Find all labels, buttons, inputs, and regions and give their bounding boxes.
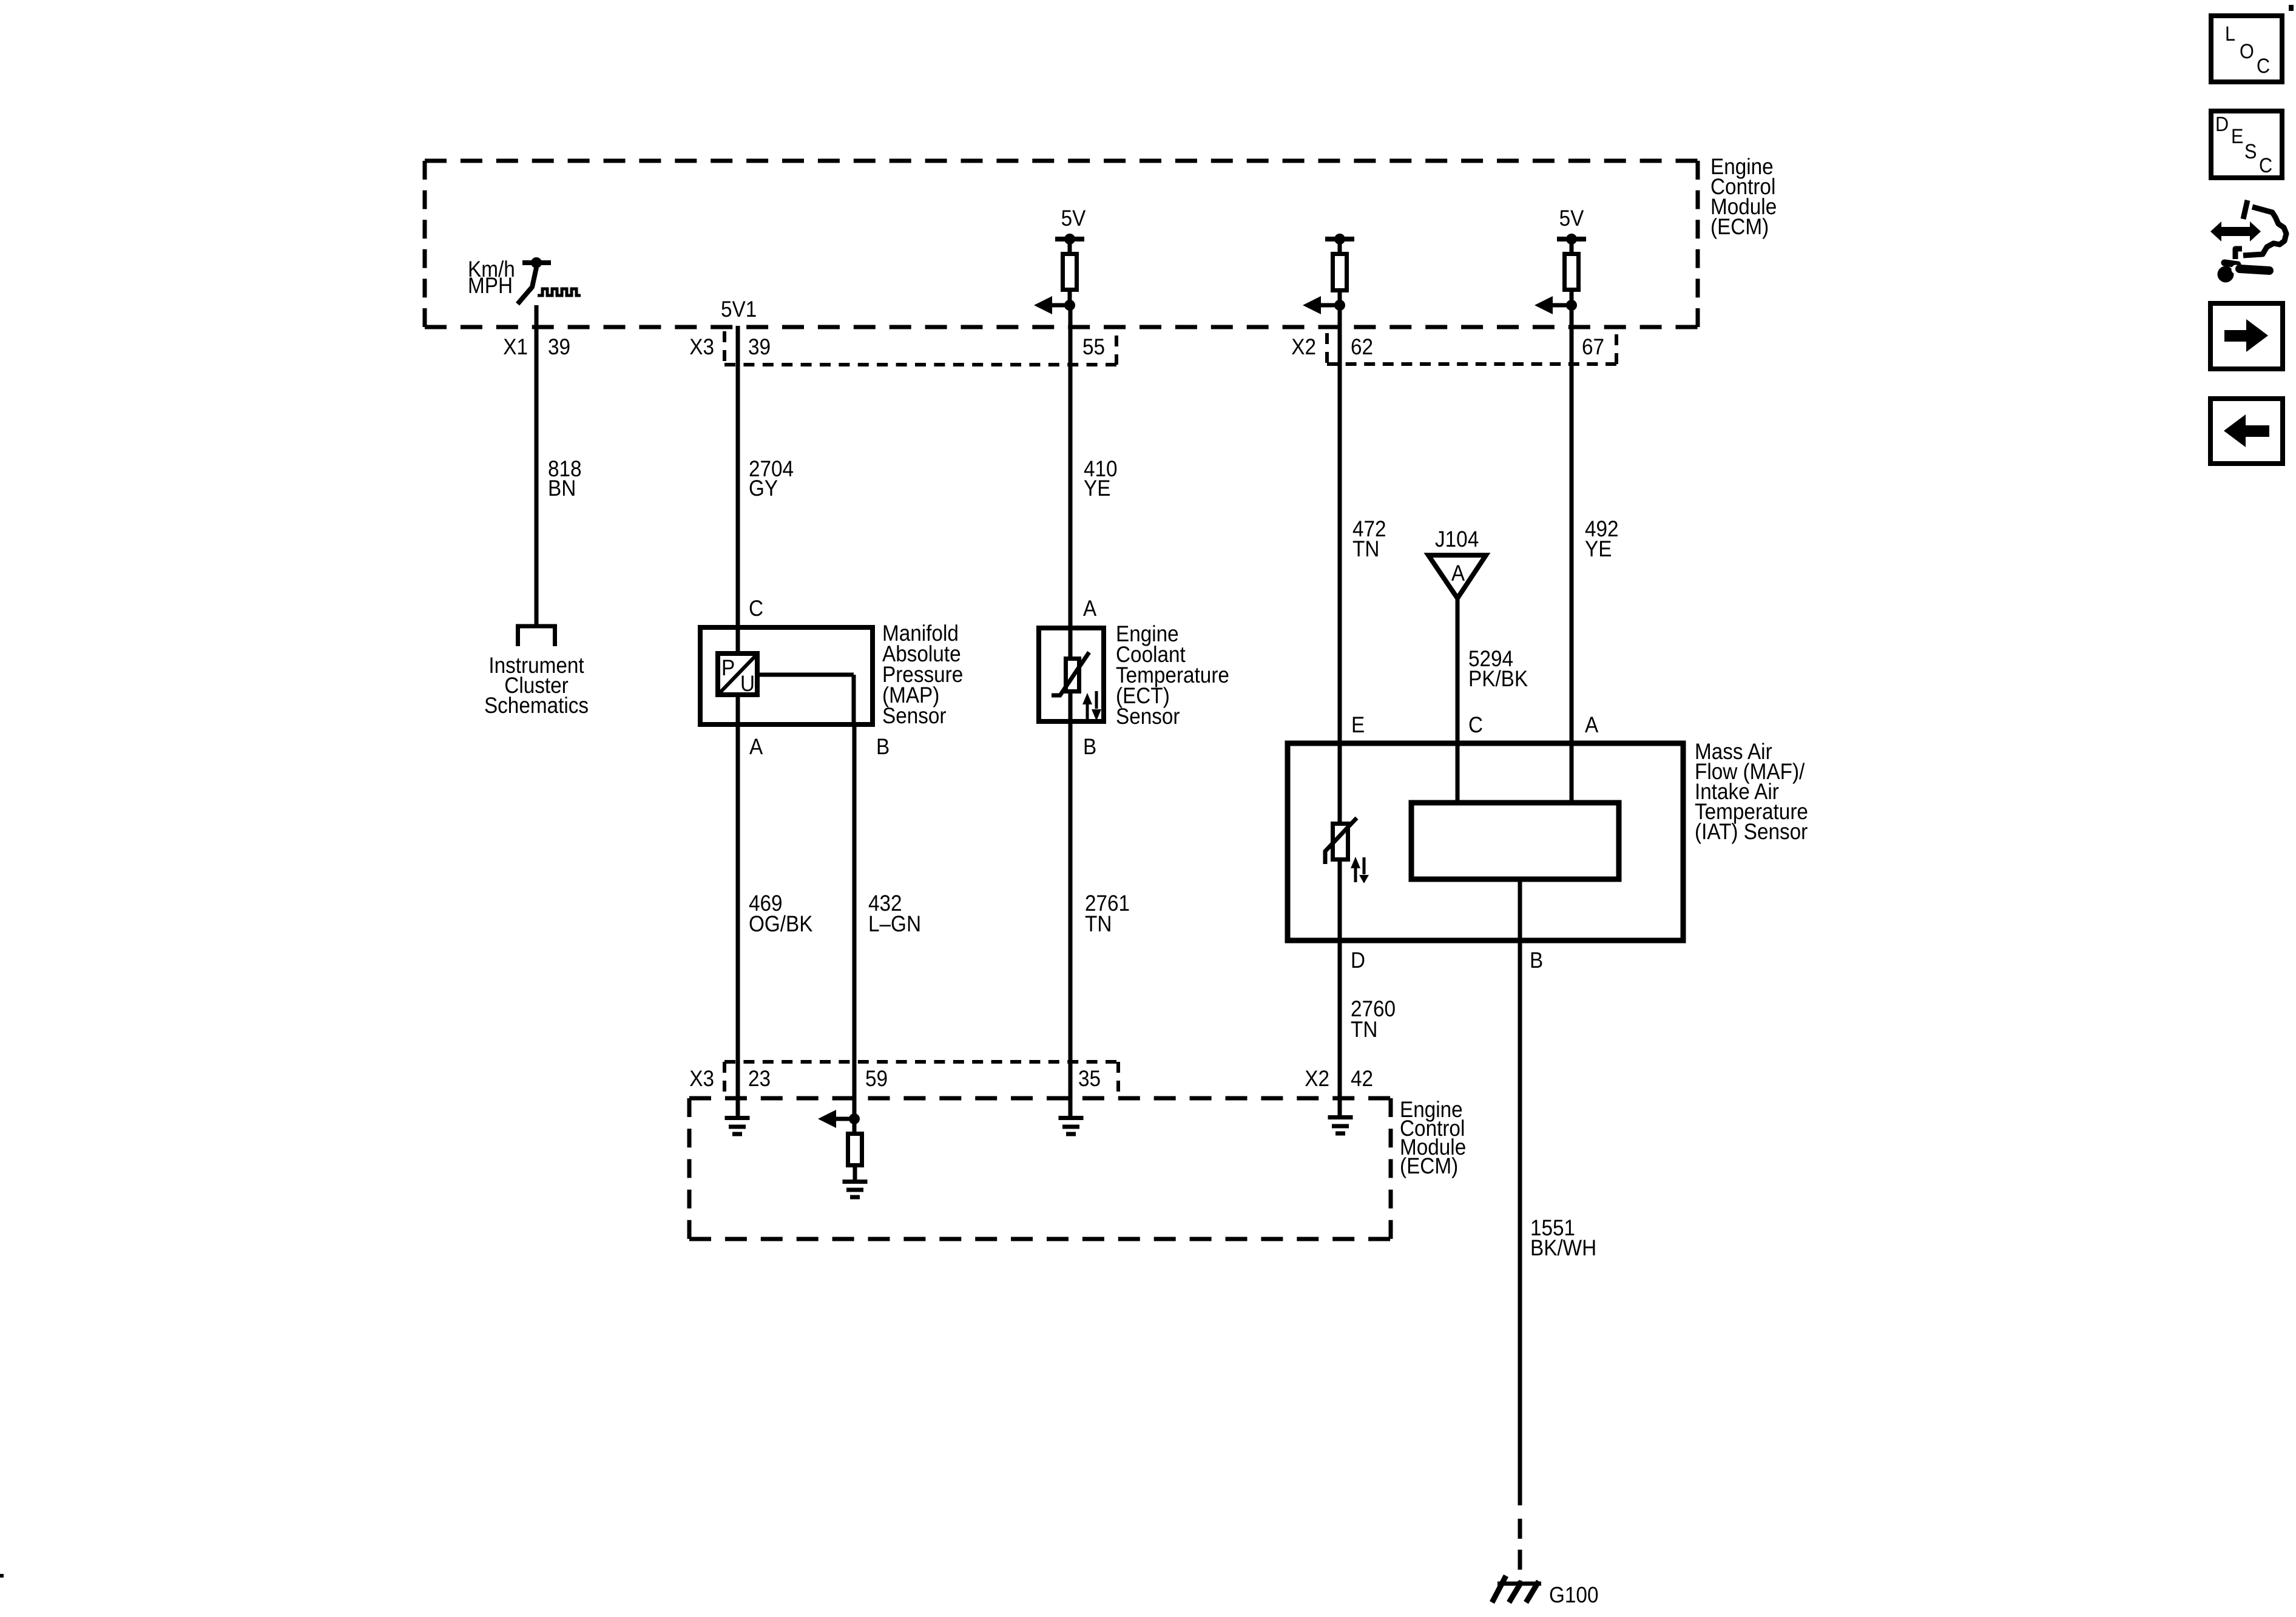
resistor (ECT pull-up in ECM) <box>1068 239 1072 254</box>
svg-text:L: L <box>2225 22 2235 46</box>
svg-text:X2: X2 <box>1291 334 1316 359</box>
svg-text:A: A <box>1083 596 1097 621</box>
ECT temperature arrows <box>1086 703 1089 720</box>
svg-text:O: O <box>2240 40 2254 63</box>
ground (internal ECM) <box>843 1182 868 1198</box>
svg-text:TN: TN <box>1085 911 1112 936</box>
wire 432 L-GN (MAP low reference) <box>853 724 857 1119</box>
svg-text:C: C <box>2257 55 2270 78</box>
svg-text:A: A <box>749 734 763 759</box>
MAF electronics inner box <box>1411 803 1619 879</box>
svg-text:Sensor: Sensor <box>882 703 947 728</box>
resistor (IAT pull-up in ECM) <box>1338 239 1342 254</box>
svg-text:5V1: 5V1 <box>721 297 757 322</box>
svg-text:C: C <box>749 596 763 621</box>
wire 2760 TN (IAT low reference) <box>1338 940 1342 1115</box>
svg-text:D: D <box>1351 948 1365 973</box>
ECT signal arrow (to ECM) <box>1052 292 1070 305</box>
connector X3 dotted outline (pins 39,55) <box>724 331 1116 365</box>
junction dot and bar (ECT 5V) <box>1055 237 1084 241</box>
MAP pressure transducer symbol P/U <box>718 653 757 695</box>
ground (ECM pin 35) <box>1059 1118 1084 1135</box>
IAT temperature arrows <box>1354 866 1357 882</box>
resistor (MAF supply in ECM) <box>1570 239 1574 254</box>
ECT thermistor symbol <box>1066 659 1079 692</box>
svg-text:35: 35 <box>1078 1066 1101 1091</box>
svg-text:P: P <box>721 655 735 680</box>
svg-text:BK/WH: BK/WH <box>1530 1235 1596 1260</box>
svg-text:42: 42 <box>1351 1066 1373 1091</box>
resistor (low reference bias in ECM) <box>853 1119 857 1133</box>
svg-text:E: E <box>1351 712 1365 737</box>
wire 5294 PK/BK (MAF signal) <box>1456 598 1460 803</box>
ECM (Engine Control Module) top dashed box outline <box>425 161 1698 327</box>
svg-text:A: A <box>1585 712 1599 737</box>
svg-text:23: 23 <box>748 1066 771 1091</box>
svg-text:S: S <box>2244 140 2257 163</box>
svg-text:B: B <box>876 734 890 759</box>
wire 410 YE (ECT signal) <box>1069 305 1073 721</box>
svg-text:C: C <box>2259 154 2272 177</box>
connector X3 dotted outline (pins 23,59,35) <box>724 1062 1118 1095</box>
instrument cluster connector bracket <box>516 626 557 646</box>
MAF/IAT sensor box <box>1288 743 1683 940</box>
svg-text:Schematics: Schematics <box>484 693 589 718</box>
svg-text:E: E <box>2231 125 2243 148</box>
connector X2 dotted outline (pins 62,67) <box>1327 333 1616 364</box>
svg-text:MPH: MPH <box>468 273 513 298</box>
IAT thermistor symbol <box>1333 824 1348 860</box>
ECM bottom dashed box outline <box>689 1098 1391 1239</box>
svg-text:YE: YE <box>1585 536 1612 561</box>
MAP internal wire to pin B <box>760 675 854 724</box>
svg-text:(ECM): (ECM) <box>1710 214 1769 239</box>
low reference arrow (pin 59) <box>836 1117 854 1121</box>
ground (ECM pin 42) <box>1328 1118 1353 1134</box>
MAP sensor box <box>700 627 873 724</box>
MAF supply arrow (to ECM) <box>1553 292 1572 305</box>
svg-text:X2: X2 <box>1305 1066 1329 1091</box>
svg-text:GY: GY <box>749 476 778 501</box>
svg-text:(IAT) Sensor: (IAT) Sensor <box>1695 819 1808 844</box>
svg-text:U: U <box>740 671 755 696</box>
svg-text:39: 39 <box>748 334 771 359</box>
svg-text:J104: J104 <box>1435 527 1479 552</box>
svg-text:A: A <box>1451 561 1465 586</box>
svg-text:59: 59 <box>865 1066 888 1091</box>
wire 2761 TN (ECT low reference) <box>1069 721 1073 1116</box>
svg-text:Sensor: Sensor <box>1116 704 1180 729</box>
svg-text:5V: 5V <box>1559 206 1584 231</box>
svg-text:X3: X3 <box>689 1066 714 1091</box>
svg-text:(ECM): (ECM) <box>1400 1153 1458 1178</box>
DESC icon <box>2211 111 2282 178</box>
wire 2704 GY (5V reference to MAP) <box>736 326 740 724</box>
junction dot and bar (MAF 5V) <box>1557 237 1586 241</box>
svg-text:D: D <box>2215 113 2229 136</box>
svg-text:L–GN: L–GN <box>868 911 921 936</box>
wire 1551 BK/WH (MAF ground) <box>1518 879 1522 1505</box>
svg-text:X1: X1 <box>503 334 528 359</box>
forward arrow icon <box>2210 303 2283 369</box>
svg-text:YE: YE <box>1084 476 1110 501</box>
svg-text:OG/BK: OG/BK <box>749 911 813 936</box>
wire 472 TN (IAT signal) <box>1338 305 1342 940</box>
svg-text:B: B <box>1530 948 1543 973</box>
svg-text:62: 62 <box>1351 334 1373 359</box>
ground (ECM pin 23) <box>725 1118 750 1135</box>
svg-text:X3: X3 <box>689 334 714 359</box>
wire 469 OG/BK (MAP signal) <box>736 724 740 1116</box>
ECT sensor box <box>1039 628 1104 721</box>
junction dot and bar (IAT pull-up) <box>1325 237 1354 241</box>
LOC icon <box>2211 16 2282 82</box>
svg-text:TN: TN <box>1352 536 1379 561</box>
svg-text:PK/BK: PK/BK <box>1468 666 1528 691</box>
vehicle speed output symbol (Km/h MPH) <box>518 263 551 304</box>
svg-text:G100: G100 <box>1549 1582 1598 1607</box>
svg-text:BN: BN <box>548 476 576 501</box>
svg-text:39: 39 <box>548 334 570 359</box>
svg-text:C: C <box>1468 712 1483 737</box>
svg-text:TN: TN <box>1351 1017 1377 1042</box>
svg-text:67: 67 <box>1582 334 1604 359</box>
ground G100 symbol <box>1497 1582 1541 1586</box>
svg-text:5V: 5V <box>1061 206 1086 231</box>
wire 492 YE (MAF ignition feed) <box>1570 305 1574 803</box>
vehicle diagnostic icon (car outline, double arrow, wrench) <box>2243 207 2286 255</box>
IAT signal arrow (to ECM) <box>1321 292 1340 305</box>
svg-text:55: 55 <box>1082 334 1105 359</box>
svg-text:B: B <box>1083 734 1096 759</box>
wire 818 BN (speed signal to instrument cluster) <box>535 305 539 624</box>
back arrow icon <box>2210 399 2283 464</box>
splice J104 triangle <box>1428 555 1486 598</box>
page corner marks <box>2289 5 2294 11</box>
